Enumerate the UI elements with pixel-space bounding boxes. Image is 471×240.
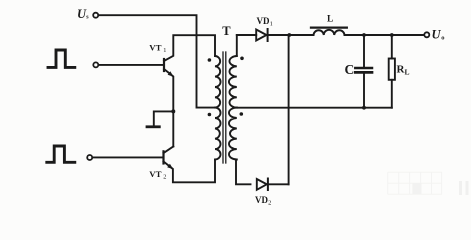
- svg-text:VD: VD: [257, 16, 270, 26]
- svg-text:U: U: [432, 28, 442, 42]
- svg-text:L: L: [405, 68, 410, 77]
- svg-text:2: 2: [268, 199, 271, 206]
- svg-text:2: 2: [163, 174, 166, 181]
- svg-text:s: s: [86, 14, 89, 20]
- svg-text:1: 1: [270, 20, 273, 27]
- svg-text:VT: VT: [149, 42, 161, 52]
- svg-text:o: o: [441, 35, 444, 42]
- svg-text:VT: VT: [149, 169, 161, 179]
- svg-text:L: L: [327, 15, 333, 25]
- svg-text:T: T: [222, 24, 231, 38]
- svg-text:C: C: [345, 62, 355, 77]
- svg-text:1: 1: [163, 47, 166, 54]
- svg-text:VD: VD: [255, 195, 268, 205]
